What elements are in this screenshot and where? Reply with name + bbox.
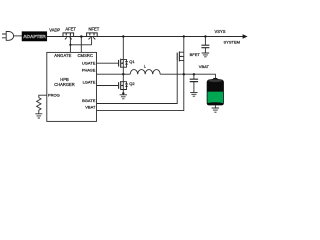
transistor Q1	[119, 37, 128, 75]
svg-text:LGATE: LGATE	[83, 79, 96, 84]
svg-text:PROG: PROG	[48, 92, 60, 97]
svg-text:AFET: AFET	[65, 27, 76, 32]
wire PHASE	[97, 73, 124, 75]
svg-text:ANGATE: ANGATE	[54, 53, 71, 58]
svg-text:VBAT: VBAT	[199, 64, 210, 69]
ground C1	[202, 53, 209, 57]
svg-text:VADP: VADP	[49, 27, 60, 32]
ground PROG	[35, 112, 42, 118]
svg-text:CMSRC: CMSRC	[78, 53, 94, 58]
resistor RPROG wire	[39, 95, 47, 97]
wire VBAT node	[160, 74, 215, 78]
node C2 on VBAT	[193, 73, 195, 75]
capacitor C2 VBAT	[190, 74, 198, 92]
svg-text:NFET: NFET	[89, 27, 100, 32]
svg-text:Q2: Q2	[129, 81, 135, 86]
svg-text:BGATE: BGATE	[82, 98, 96, 103]
AC plug	[2, 32, 22, 41]
capacitor C1 VSYS	[201, 37, 209, 54]
node BFET drain on rail	[183, 35, 185, 37]
node BFET source on VBAT	[183, 73, 185, 75]
charger IC U1 box	[47, 52, 97, 121]
svg-text:L: L	[144, 64, 147, 69]
node VSYS arrow	[243, 34, 248, 38]
inductor L	[130, 70, 160, 75]
wire BGATE	[97, 60, 178, 103]
node Q2 source	[122, 92, 124, 94]
wire phase to inductor	[123, 73, 130, 75]
svg-text:PHASE: PHASE	[82, 67, 96, 72]
node Q1 drain on rail	[122, 35, 124, 37]
svg-text:CHARGER: CHARGER	[54, 82, 75, 87]
wire gate bus ANGATE	[70, 44, 91, 46]
transistor AFET	[63, 33, 74, 45]
node CMSRC on rail	[80, 35, 83, 38]
ground C2	[190, 92, 197, 96]
svg-text:VSYS: VSYS	[215, 29, 226, 34]
resistor RPROG	[37, 98, 41, 113]
svg-text:Q1: Q1	[129, 59, 135, 64]
wire VBAT pin	[97, 74, 184, 110]
wire ANGATE riser	[69, 45, 71, 53]
battery BT1	[207, 78, 223, 105]
node PHASE junction	[122, 73, 124, 75]
svg-text:VBAT: VBAT	[85, 104, 96, 109]
ground Q2	[120, 95, 127, 99]
svg-text:BFET: BFET	[190, 52, 201, 57]
wire UGATE	[97, 62, 119, 64]
node C1 on rail	[204, 35, 206, 37]
svg-text:ADAPTER: ADAPTER	[23, 34, 46, 39]
node gate junction	[69, 44, 71, 46]
transistor Q2	[119, 74, 128, 93]
ground battery	[212, 105, 219, 112]
wire LGATE	[97, 85, 119, 87]
svg-text:SYSTEM: SYSTEM	[224, 39, 240, 44]
svg-text:HPB: HPB	[60, 77, 69, 82]
adapter box	[22, 32, 47, 41]
wire VADP top rail	[47, 36, 243, 38]
svg-text:UGATE: UGATE	[82, 60, 96, 65]
transistor BFET	[177, 37, 184, 75]
transistor NFET	[87, 33, 98, 45]
wire CMSRC riser	[80, 37, 82, 53]
